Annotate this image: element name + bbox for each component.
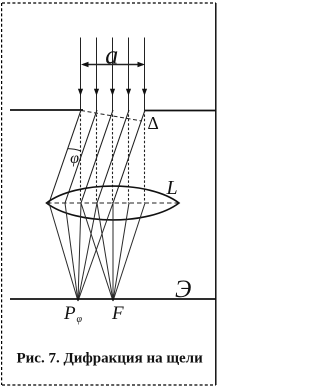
lens axis dashed	[47, 202, 179, 204]
svg-text:P: P	[63, 303, 76, 324]
focused fan to P: ray 5	[78, 203, 113, 301]
incident ray 2	[94, 38, 99, 111]
slit screen line left	[10, 109, 83, 111]
focused fan to F: ray 3	[112, 203, 114, 301]
svg-text:a: a	[105, 41, 118, 70]
straight dashed ray 4	[128, 110, 130, 203]
svg-text:φ: φ	[77, 314, 83, 325]
incident ray 5	[142, 38, 147, 111]
focused fan to F: ray 4	[113, 203, 129, 301]
straight dashed ray 2	[96, 110, 98, 203]
diffracted ray 5	[113, 110, 145, 203]
diffracted ray 1	[49, 110, 81, 203]
focused fan to P: ray 1	[49, 203, 78, 301]
svg-text:Э: Э	[175, 276, 191, 303]
focused fan to F: ray 5	[113, 203, 145, 301]
border frame right	[215, 3, 217, 385]
dimension arrow a	[81, 62, 145, 68]
angle phi arc	[68, 149, 81, 151]
focused fan to P: ray 4	[78, 203, 97, 301]
focused fan to P: ray 3	[78, 203, 81, 301]
diffracted ray 4	[97, 110, 129, 203]
border frame left	[1, 3, 3, 385]
svg-text:φ: φ	[70, 150, 79, 167]
incident ray 4	[126, 38, 131, 111]
straight dashed ray 1	[80, 110, 82, 203]
diffracted ray 3	[81, 110, 113, 203]
incident ray 1	[78, 38, 83, 111]
slit screen line right	[145, 110, 216, 112]
lens L ellipse	[47, 186, 180, 220]
focused fan to F: ray 1	[81, 203, 113, 301]
border frame bottom	[2, 384, 216, 386]
svg-text:F: F	[111, 303, 124, 324]
svg-text:Рис. 7. Дифракция на щели: Рис. 7. Дифракция на щели	[17, 351, 204, 367]
straight dashed ray 3	[112, 110, 114, 203]
incident ray 3	[110, 38, 115, 111]
screen line	[10, 298, 216, 300]
diffracted ray 2	[65, 110, 97, 203]
straight dashed ray 5	[144, 110, 146, 203]
svg-text:Δ: Δ	[148, 113, 159, 133]
svg-text:L: L	[166, 177, 178, 199]
border frame top	[2, 2, 216, 4]
focused fan to F: ray 2	[97, 203, 113, 301]
path difference dashed line	[81, 111, 142, 122]
focused fan to P: ray 2	[65, 203, 78, 301]
